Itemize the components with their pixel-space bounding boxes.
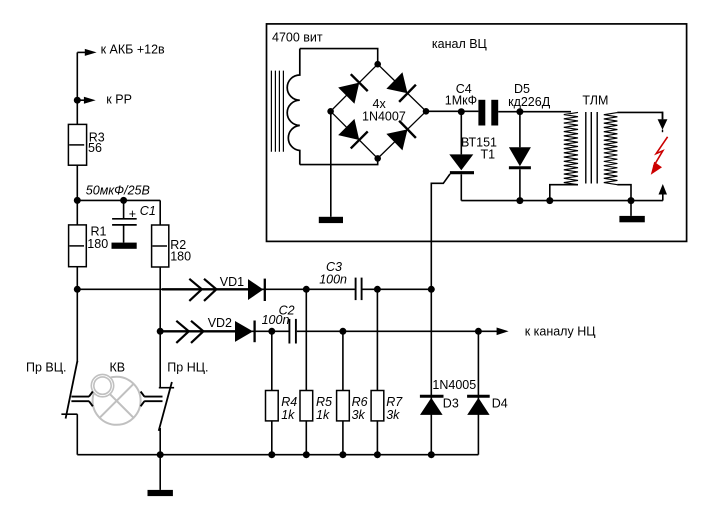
svg-text:1k: 1k	[281, 408, 295, 422]
node bottom rail switch junction	[157, 451, 164, 458]
svg-text:D4: D4	[492, 397, 508, 411]
wire VD2 row right part	[297, 330, 497, 332]
ground main bottom	[148, 490, 173, 496]
wire main left rail top	[76, 52, 78, 124]
capacitor C4 plates	[478, 100, 498, 126]
wire R3 to C1 rail	[76, 165, 78, 225]
lamp КВ	[91, 374, 140, 424]
svg-text:1k: 1k	[316, 408, 330, 422]
node bridge top	[374, 61, 381, 68]
wire +12V feed stub	[77, 51, 85, 53]
wire R2 top stub	[159, 200, 161, 225]
wire C1 bottom lead	[123, 225, 125, 243]
wire spark lower lead	[662, 195, 664, 201]
svg-text:T1: T1	[481, 147, 496, 161]
diode D4	[467, 396, 490, 415]
svg-text:1N4005: 1N4005	[432, 378, 476, 392]
bridge rectifier diamond	[331, 64, 426, 158]
wire C1 rail	[77, 199, 160, 201]
wire bottom rail	[77, 454, 478, 456]
wire bridge output to C4	[426, 110, 478, 112]
svg-text:D5: D5	[514, 82, 530, 96]
wire R6 column	[342, 331, 344, 454]
resistor R3	[68, 124, 86, 165]
wire C4 to D5	[498, 111, 520, 113]
switch Пр ВЦ blade	[61, 361, 77, 419]
node TLM right return junction	[628, 197, 635, 204]
node C1 rail left junction	[74, 197, 81, 204]
resistor R7	[371, 391, 384, 421]
node bridge left	[327, 108, 334, 115]
bridge diode bottom-right	[386, 121, 416, 151]
bridge diode bottom-left	[338, 119, 368, 149]
box канал ВЦ enclosure	[267, 24, 687, 242]
svg-text:канал ВЦ: канал ВЦ	[432, 37, 488, 51]
wire VD1 row right part	[362, 288, 431, 290]
arrow к каналу НЦ	[497, 328, 509, 336]
switch Пр НЦ blade	[159, 382, 172, 431]
node VD2-R6 junction	[339, 328, 346, 335]
transformer TLM right winding	[604, 113, 618, 185]
node VD1-R5 junction	[303, 286, 310, 293]
wire к РР stub	[77, 99, 84, 101]
svg-text:кд226Д: кд226Д	[508, 95, 551, 109]
wire ground lead in box right	[630, 201, 632, 216]
wire C1 top lead	[123, 200, 125, 218]
lamp right contact	[141, 392, 163, 407]
wire left rail to switch	[76, 289, 78, 362]
svg-text:3k: 3k	[352, 408, 366, 422]
svg-text:ТЛМ: ТЛМ	[582, 94, 608, 108]
node C1 top junction	[120, 197, 127, 204]
wire TLM right winding return	[617, 185, 631, 201]
thyristor T1	[449, 154, 474, 172]
svg-text:КВ: КВ	[110, 360, 126, 374]
svg-text:100n: 100n	[262, 313, 290, 327]
arrow к РР	[84, 97, 96, 104]
wire VD1 thick feed segment	[162, 288, 249, 290]
lamp left contact	[71, 392, 92, 407]
node D5 top junction	[516, 108, 523, 115]
capacitor C2	[289, 319, 296, 344]
node TLM left return junction	[546, 197, 553, 204]
node bridge bottom	[374, 155, 381, 162]
node к РР junction	[74, 97, 81, 104]
diode VD1	[248, 279, 265, 301]
svg-text:C1: C1	[140, 204, 156, 218]
wire TLM right winding top	[617, 112, 662, 119]
svg-text:D3: D3	[443, 397, 459, 411]
node bridge right	[423, 108, 430, 115]
svg-text:1N4007: 1N4007	[362, 109, 406, 123]
wire VD1 row left part	[77, 288, 355, 290]
connector chevrons VD1 row	[189, 279, 216, 301]
node bottom rail D3 junction	[428, 451, 435, 458]
bridge diode top-left	[338, 74, 368, 104]
wire bridge minus node to ground	[330, 111, 332, 217]
node bottom rail R4 junction	[268, 451, 275, 458]
node VD2 row left junction	[157, 328, 164, 335]
wire T1 cathode lead	[460, 174, 462, 200]
resistor R2	[152, 225, 169, 267]
transformer TLM left winding	[564, 112, 578, 184]
node D5 bottom junction	[516, 197, 523, 204]
wire right switch bottom	[159, 428, 161, 455]
wire R5 column	[305, 289, 307, 454]
connector chevrons VD2 row	[176, 321, 203, 343]
svg-text:3k: 3k	[386, 408, 400, 422]
svg-text:56: 56	[88, 141, 102, 155]
node bottom rail R5 junction	[303, 451, 310, 458]
wire T1 gate to D3 column	[431, 174, 450, 455]
resistor R5	[300, 391, 313, 421]
wire VD2 row left part	[160, 330, 288, 332]
capacitor C1	[112, 219, 137, 225]
wire ground lead bottom	[159, 455, 161, 490]
node VD1-R7 junction	[374, 286, 381, 293]
svg-text:к РР: к РР	[106, 93, 132, 107]
svg-text:к АКБ +12в: к АКБ +12в	[101, 43, 165, 57]
svg-text:1МкФ: 1МкФ	[445, 94, 477, 108]
ground in box left	[319, 217, 343, 223]
diode D3	[420, 396, 444, 415]
wire TLM left winding return	[550, 185, 578, 201]
svg-text:50мкФ/25В: 50мкФ/25В	[86, 184, 150, 198]
svg-text:к каналу НЦ: к каналу НЦ	[525, 325, 597, 339]
svg-text:R6: R6	[352, 395, 368, 409]
wire R2 bottom to VD2 row	[159, 267, 161, 331]
wire D5 to TLM primary	[520, 111, 571, 113]
resistor R1	[69, 225, 87, 267]
transformer TLM core	[586, 112, 597, 184]
wire VD2 thick feed segment	[160, 330, 236, 332]
wire D4 column	[477, 331, 479, 454]
transformer primary core hatching	[271, 71, 283, 152]
resistor R4	[266, 391, 279, 421]
svg-text:Пр ВЦ.: Пр ВЦ.	[26, 360, 66, 374]
wire box bottom rail	[461, 200, 663, 202]
svg-text:+: +	[129, 207, 136, 221]
node VD1-gate junction	[428, 286, 435, 293]
wire primary coil bottom lead	[300, 158, 378, 164]
wire primary coil top lead	[300, 49, 378, 65]
spark lower arrow	[659, 184, 668, 195]
bridge diode top-right	[386, 72, 416, 102]
node bottom rail R6 junction	[339, 451, 346, 458]
wire R7 column	[376, 289, 378, 454]
svg-text:R5: R5	[316, 395, 332, 409]
spark upper arrow	[658, 112, 668, 133]
node VD2-R4 junction	[268, 328, 275, 335]
diode D5	[509, 147, 531, 168]
wire right switch top jog	[159, 387, 174, 389]
svg-text:4700 вит: 4700 вит	[272, 30, 323, 44]
wire R1 bottom to VD1 row	[76, 267, 78, 290]
svg-text:VD2: VD2	[208, 316, 232, 330]
wire T1 anode lead	[460, 112, 462, 155]
wire R2 column to right switch	[159, 331, 161, 387]
node VD2-D4 junction	[475, 328, 482, 335]
inductor primary winding 4700 вит	[287, 49, 300, 165]
svg-text:R7: R7	[386, 395, 403, 409]
ground in box right	[619, 216, 644, 222]
node T1 anode junction	[458, 108, 465, 115]
capacitor C3	[356, 278, 362, 301]
svg-text:VD1: VD1	[220, 275, 244, 289]
svg-text:180: 180	[87, 237, 108, 251]
wire R4 column	[271, 331, 273, 454]
wire left switch bottom jog	[76, 414, 78, 455]
svg-text:100n: 100n	[319, 273, 347, 287]
diode VD2	[235, 321, 255, 343]
svg-text:180: 180	[170, 249, 191, 263]
svg-text:Пр НЦ.: Пр НЦ.	[167, 360, 208, 374]
arrow к АКБ +12в	[85, 49, 97, 56]
resistor R6	[337, 391, 350, 421]
svg-text:R4: R4	[281, 395, 297, 409]
wire D5 bottom lead	[519, 169, 521, 200]
wire D5 top lead	[519, 112, 521, 148]
spark lightning bolt	[651, 137, 668, 175]
ground under C1	[112, 243, 137, 249]
node bottom rail R7 junction	[374, 451, 381, 458]
node VD1 row left junction	[74, 286, 81, 293]
